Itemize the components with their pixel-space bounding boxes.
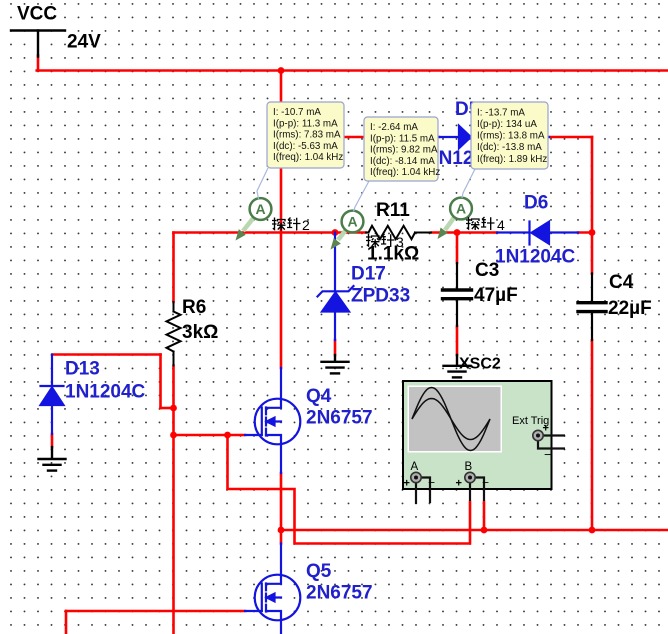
svg-text:3kΩ: 3kΩ [182,322,218,343]
wire R6 top lead [172,233,175,303]
node R6 bottom / D13 link [170,405,177,412]
probe 4 label 探针4 [466,217,495,230]
svg-text:4: 4 [497,217,505,233]
probe 3 label 探针3 [366,234,395,247]
wire center vertical from top bus to Q4 drain [280,71,283,369]
wire mid bus right of D6 [578,231,592,234]
svg-text:D6: D6 [524,193,548,214]
svg-text:−: − [544,447,552,462]
svg-text:A: A [255,201,265,217]
svg-text:2N6757: 2N6757 [306,583,373,604]
scope terminal A [404,461,436,490]
wire C3 top lead red [456,233,459,264]
wire mid bus left segment [174,231,367,234]
probe 4 circle [450,198,472,220]
scope waveform large [412,388,490,451]
svg-text:I(freq): 1.89 kHz: I(freq): 1.89 kHz [477,154,547,165]
node mid bus / right vertical [589,229,596,236]
probe 2 label 探针2 [272,218,301,231]
svg-text:I(p-p): 11.5 mA: I(p-p): 11.5 mA [370,133,435,144]
node low bus / center vertical [278,527,285,534]
wire mid bus right of R11 [431,231,497,234]
probe tooltip 1 [267,102,344,168]
svg-text:VCC: VCC [17,4,57,25]
ground for XSC2 / C3 [444,355,471,377]
svg-text:C4: C4 [609,272,634,293]
wire Q4 gate row [174,434,246,437]
oscilloscope XSC2 body [403,381,552,489]
svg-text:I(dc): -13.8 mA: I(dc): -13.8 mA [477,142,542,153]
svg-text:I(freq): 1.04 kHz: I(freq): 1.04 kHz [370,167,440,178]
wire D17 bottom red [334,340,337,355]
scope ext trig wires [538,436,565,449]
node low bus / C4 [589,527,596,534]
wire low bus to right edge [281,529,668,532]
svg-text:−: − [428,476,435,490]
wire scope B+ route down [228,435,471,544]
wire tooltip leader 3 [462,169,475,198]
wire top bus from VCC to right edge [37,69,668,72]
svg-text:D17: D17 [351,264,386,285]
wire D13 link horizontal [53,353,161,356]
svg-text:2N6757: 2N6757 [306,408,373,429]
probe tooltip 2 [364,117,440,181]
svg-text:I: -10.7 mA: I: -10.7 mA [273,107,321,118]
svg-text:A: A [456,201,466,217]
svg-text:I(rms): 13.8 mA: I(rms): 13.8 mA [477,131,545,142]
svg-text:D13: D13 [65,359,100,380]
svg-text:3: 3 [396,234,404,250]
wire Q5 gate row [66,610,245,613]
node mid bus / D17 [332,229,339,236]
diode D5 [439,126,549,148]
scope ext trig terminal [533,423,552,463]
svg-text:A: A [411,461,419,473]
probe 2 circle [250,198,272,220]
svg-text:I(freq): 1.04 kHz: I(freq): 1.04 kHz [273,152,343,163]
svg-text:I(rms): 7.83 mA: I(rms): 7.83 mA [273,130,341,141]
svg-text:24V: 24V [67,32,101,53]
svg-text:I(dc): -8.14 mA: I(dc): -8.14 mA [370,156,435,167]
zener diode D17 [318,233,354,341]
resistor R11 [366,226,431,239]
svg-text:I: -2.64 mA: I: -2.64 mA [370,122,418,133]
node low bus / scope B- [481,527,488,534]
wire C4 bottom to low bus [591,340,594,530]
scope terminal B wires [470,478,484,502]
svg-text:Q4: Q4 [306,386,332,407]
resistor R6 [167,302,181,366]
capacitor C3 [443,263,472,326]
svg-text:R6: R6 [182,297,206,318]
svg-text:R11: R11 [376,200,410,221]
svg-text:ZPD33: ZPD33 [351,286,410,307]
transistor Q4 [245,368,300,473]
wire tooltip leader 2 [354,181,370,212]
probe 2 arrow [236,217,255,240]
probe 3 arrow [331,230,347,250]
svg-text:−: − [482,476,489,490]
wire VCC red stem [37,56,40,71]
svg-text:+: + [543,423,549,435]
svg-text:22µF: 22µF [608,298,652,319]
wire Q4 source to Q5 drain red part [280,473,283,544]
svg-text:1N1204C: 1N1204C [495,247,576,268]
ground for D17 [322,355,349,373]
svg-text:47µF: 47µF [474,285,518,306]
wire D13 anode red segment [51,434,54,447]
scope terminal B [456,461,490,490]
svg-text:I(dc): -5.63 mA: I(dc): -5.63 mA [273,141,338,152]
wire diode D5 row left segment [281,136,439,139]
wire C3 bottom red [456,326,459,355]
svg-text:I: -13.7 mA: I: -13.7 mA [477,107,525,118]
svg-text:I(rms): 9.82 mA: I(rms): 9.82 mA [370,145,438,156]
svg-text:+: + [404,478,410,490]
svg-text:B: B [465,461,473,473]
node top bus / center vertical [278,67,285,74]
diode D6 [497,222,578,245]
svg-text:A: A [347,214,357,230]
wire right vertical from D5 row to C4 top [591,137,594,274]
wire Q5 gate row drop at left [65,611,68,634]
probe 4 arrow [438,217,455,239]
diode D13 [41,355,64,435]
svg-text:2: 2 [302,217,310,233]
svg-text:XSC2: XSC2 [459,356,501,373]
node gate row / scope branch [224,432,231,439]
wire scope B- drop [483,502,486,530]
svg-text:I(p-p): 11.3 mA: I(p-p): 11.3 mA [273,118,338,129]
probe tooltip 3 [471,102,548,169]
transistor Q5 [245,544,300,634]
scope terminal A wires [416,478,430,505]
ground for D13 [39,447,66,471]
capacitor C4 [578,274,606,341]
svg-text:1N1204C: 1N1204C [65,382,146,403]
wire tooltip leader 1 [257,168,268,199]
wire D13 link vertical [159,355,162,409]
node gate row / R6 branch [170,432,177,439]
probe 3 circle [342,211,364,233]
svg-text:+: + [456,478,462,490]
scope waveform small [412,399,490,440]
svg-text:Q5: Q5 [306,561,332,582]
node mid bus / C3 [454,229,461,236]
wire D13 link to R6 node [161,407,174,410]
wire diode D5 row right segment [549,136,592,139]
power VCC symbol [11,29,65,31]
svg-text:I(p-p): 134 uA: I(p-p): 134 uA [477,119,537,130]
wire R6 bottom to bottom edge [172,366,175,634]
